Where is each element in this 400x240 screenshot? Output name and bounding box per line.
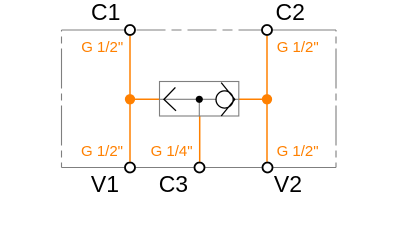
wire orange vertical C3 [199, 116, 201, 162]
border left dash-dot [61, 30, 63, 168]
border right dash-dot [335, 30, 337, 168]
border bottom solid segments [62, 167, 337, 169]
svg-text:C2: C2 [275, 0, 304, 25]
port C3 [195, 163, 205, 173]
wire orange horizontal valve to right [239, 98, 267, 100]
wire orange vertical C1-V1 [129, 36, 131, 162]
svg-text:G 1/2": G 1/2" [81, 143, 123, 160]
port V2 [263, 163, 273, 173]
svg-text:C3: C3 [159, 171, 188, 197]
svg-text:G 1/2": G 1/2" [277, 143, 319, 160]
svg-text:G 1/2": G 1/2" [277, 39, 319, 56]
wire grey centerline inside valve [160, 98, 217, 100]
port C1 [125, 25, 135, 35]
border top-left segment [62, 29, 125, 31]
wire grey apex to box edge [234, 98, 239, 100]
arrow left flow [164, 87, 176, 110]
svg-text:V1: V1 [91, 171, 119, 197]
check valve ball [216, 91, 233, 108]
border top-right segment [273, 29, 336, 31]
border top middle dash-dot segment [137, 29, 262, 31]
junction dot black [196, 96, 203, 103]
svg-text:V2: V2 [274, 171, 302, 197]
port V1 [125, 163, 135, 173]
junction dot orange left [125, 94, 135, 104]
wire grey vertical dot to box bottom [198, 99, 200, 116]
check valve seat [221, 83, 235, 116]
valve body box U1 [160, 82, 239, 117]
wire orange vertical C2-V2 [266, 36, 268, 162]
svg-text:G 1/2": G 1/2" [81, 39, 123, 56]
svg-text:C1: C1 [91, 0, 120, 25]
port C2 [262, 25, 272, 35]
svg-text:G 1/4": G 1/4" [151, 143, 193, 160]
junction dot orange right [262, 94, 272, 104]
wire orange horizontal left to valve [130, 98, 160, 100]
